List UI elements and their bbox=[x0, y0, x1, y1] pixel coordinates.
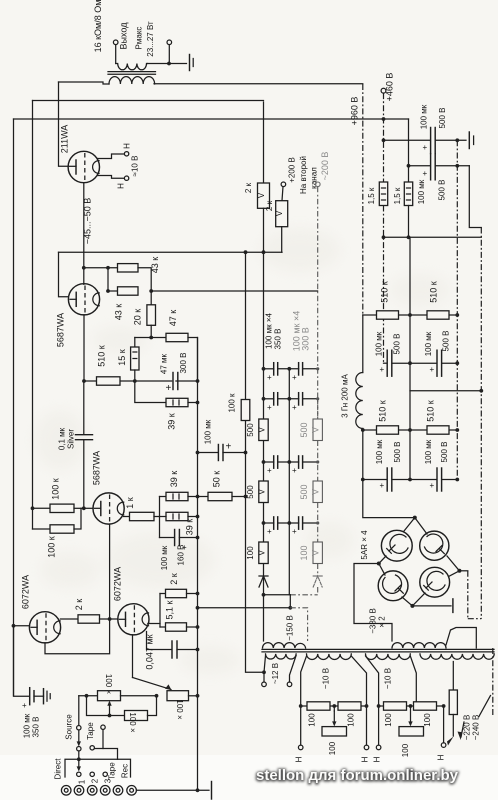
node rectifier left bbox=[377, 562, 381, 566]
svg-text:Silver: Silver bbox=[67, 429, 76, 449]
tube V4 cathode dashed bbox=[45, 613, 47, 641]
wire 39k no1 bracket bbox=[135, 381, 166, 403]
wire +460 drop dashdot bbox=[383, 93, 385, 182]
svg-text:100 мк: 100 мк bbox=[375, 331, 384, 356]
svg-text:100 к: 100 к bbox=[228, 393, 237, 413]
svg-text:V: V bbox=[311, 550, 321, 556]
bar cathode bbox=[452, 599, 454, 613]
capacitor 100mk 500V row2 right bbox=[430, 468, 442, 491]
svg-text:+: + bbox=[430, 481, 435, 490]
tube V1 grid arc bbox=[93, 161, 99, 174]
capacitor 100mk 160V bbox=[160, 530, 198, 553]
svg-text:39 к: 39 к bbox=[185, 519, 195, 536]
svg-text:+460 В: +460 В bbox=[385, 73, 395, 102]
tube V2 plate bar bbox=[70, 292, 76, 306]
terminal H top bbox=[124, 152, 128, 156]
wire 5687 no1 grid bbox=[59, 252, 69, 297]
node A-mid bbox=[332, 704, 336, 708]
wire y165 row bbox=[409, 165, 470, 167]
transformer T1 primary coil bbox=[109, 77, 155, 84]
svg-text:Source: Source bbox=[65, 714, 74, 740]
svg-text:2 к: 2 к bbox=[74, 599, 84, 611]
wire column1 x263 bbox=[263, 252, 265, 641]
node y315 x410 bbox=[408, 313, 412, 317]
terminal H A-right bbox=[364, 745, 369, 750]
node bus y537 bbox=[196, 536, 200, 540]
arrow selector in box bbox=[77, 759, 81, 771]
rectifier tube TR bbox=[420, 531, 449, 560]
wire y607 to bus bbox=[198, 607, 291, 609]
terminal H A-left bbox=[298, 745, 303, 750]
resistor 500 no2 col1 bbox=[257, 481, 268, 503]
svg-text:100: 100 bbox=[246, 546, 255, 560]
resistor 1,5k no2 bbox=[404, 182, 412, 206]
fuse mains bbox=[449, 690, 457, 736]
resistor 100k column bbox=[241, 400, 250, 421]
svg-text:15 к: 15 к bbox=[117, 349, 127, 366]
wire bracket x160 bbox=[159, 594, 161, 628]
svg-text:100 к: 100 к bbox=[47, 536, 57, 558]
svg-text:Н: Н bbox=[117, 183, 126, 189]
node 15k bottom y381 bbox=[133, 379, 137, 383]
label -380 В x2 bbox=[369, 608, 387, 634]
winding 380V secondary bbox=[392, 643, 446, 648]
wire 1,5k no2 down bbox=[408, 206, 410, 238]
jack 1 bbox=[74, 786, 84, 796]
svg-text:канал: канал bbox=[310, 167, 319, 189]
potentiometer 100 B bbox=[399, 727, 424, 736]
svg-text:V: V bbox=[311, 427, 321, 433]
wire V4 cathode loop bbox=[45, 619, 110, 654]
capacitor 100mk 500V row1 left bbox=[380, 350, 392, 376]
svg-text:100: 100 bbox=[384, 713, 393, 727]
wire cap row4 bbox=[264, 522, 318, 524]
svg-text:100 мк ×4: 100 мк ×4 bbox=[265, 312, 274, 348]
svg-text:43 к: 43 к bbox=[150, 257, 160, 274]
node row1 bbox=[262, 367, 320, 371]
wire diag bottom-BL bbox=[402, 597, 412, 606]
jack 2 bbox=[87, 786, 97, 796]
terminal 12V right bbox=[287, 656, 296, 687]
resistor 39k no3 bbox=[160, 512, 198, 520]
capacitor 100mk 500V row2 left bbox=[380, 468, 392, 491]
node bus y607 bbox=[196, 606, 200, 610]
wire primary left to rail bbox=[59, 82, 110, 84]
wire 211WA grid from rail1 bbox=[59, 82, 69, 166]
wire diag left-TL bbox=[379, 556, 386, 564]
node bus y402 bbox=[196, 401, 200, 405]
wire 2k to V5 grid bbox=[100, 618, 119, 620]
node bus y496 bbox=[196, 495, 200, 499]
svg-text:47 к: 47 к bbox=[168, 310, 178, 327]
rectifier tube BL bbox=[378, 571, 408, 601]
svg-text:20 к: 20 к bbox=[133, 309, 143, 326]
svg-text:2 к: 2 к bbox=[244, 182, 253, 193]
choke 3Gn 200mA bbox=[356, 315, 363, 430]
svg-text:V: V bbox=[257, 549, 266, 555]
node choke bottom bbox=[361, 428, 365, 432]
wire source drop bbox=[78, 696, 80, 726]
svg-text:+960 В: +960 В bbox=[350, 97, 360, 126]
svg-text:+: + bbox=[226, 442, 232, 453]
node row4 bbox=[262, 521, 320, 525]
tube V2 grid arc bbox=[93, 293, 99, 306]
cap bank row4 left bbox=[267, 517, 278, 536]
svg-text:350 В: 350 В bbox=[274, 329, 283, 350]
svg-text:100 ×: 100 × bbox=[128, 712, 137, 733]
wire x469 drop bbox=[469, 166, 481, 228]
wire volume row y696 bbox=[79, 695, 98, 697]
svg-text:100 мк: 100 мк bbox=[424, 331, 433, 356]
svg-text:100 мк: 100 мк bbox=[424, 439, 433, 464]
svg-text:43 к: 43 к bbox=[114, 304, 124, 321]
svg-text:Tape: Tape bbox=[86, 722, 95, 740]
capacitor 0,1mk Silver bbox=[76, 435, 93, 440]
wire V4 plate row 2k bbox=[60, 618, 78, 620]
node bus y696 bbox=[196, 694, 200, 698]
node x13 grid bbox=[12, 624, 16, 628]
cap bank row3 left bbox=[267, 456, 278, 475]
node rail252 x263 bbox=[262, 250, 266, 254]
resistor 43k no1 bbox=[118, 264, 139, 272]
resistor 100 col1 bbox=[257, 542, 268, 564]
wire rail2 y100 bbox=[33, 100, 264, 102]
svg-text:50 к: 50 к bbox=[212, 471, 222, 488]
wire left border v x13 bbox=[13, 119, 15, 696]
wire grid to tube bbox=[84, 507, 93, 509]
cap bank row1 left bbox=[267, 363, 278, 382]
svg-text:500 В: 500 В bbox=[442, 331, 451, 352]
tube V4 plate bar bbox=[31, 620, 37, 634]
arrow 220V tap bbox=[447, 737, 454, 746]
wire ground line bottom bbox=[137, 789, 210, 791]
ground bars right top bbox=[469, 132, 473, 149]
node x245 y452 bbox=[244, 451, 248, 455]
svg-text:Rec: Rec bbox=[121, 764, 130, 778]
wire 10V2 left flare bbox=[366, 656, 379, 745]
capacitor 100mk 500V top bbox=[423, 128, 436, 154]
wire col bottom bar bbox=[264, 587, 318, 595]
svg-text:+: + bbox=[22, 701, 27, 710]
resistor 100 B-left bbox=[384, 702, 407, 710]
label Pмакс 23...27 Вт bbox=[135, 21, 156, 57]
wire heater top bbox=[98, 154, 125, 159]
node grid V5 bbox=[108, 617, 112, 621]
svg-text:V: V bbox=[257, 192, 266, 198]
svg-text:6072WA: 6072WA bbox=[21, 575, 31, 609]
diode col1 bbox=[259, 576, 268, 587]
wire mains switch dash bbox=[492, 648, 494, 717]
svg-text:+: + bbox=[166, 383, 172, 394]
wire right node path bbox=[459, 571, 481, 619]
wire cap row3 bbox=[264, 461, 318, 463]
wire y381 row bbox=[84, 380, 198, 382]
svg-text:47 мк: 47 мк bbox=[160, 353, 169, 374]
svg-text:Pмакс: Pмакс bbox=[135, 27, 144, 50]
winding mains bbox=[420, 654, 494, 659]
jack 3 bbox=[100, 786, 110, 796]
jack Tape bbox=[113, 786, 123, 796]
arrow V5 cathode to pot bbox=[133, 678, 172, 691]
wire mains drop bbox=[452, 662, 454, 691]
svg-text:5687WA: 5687WA bbox=[92, 451, 102, 485]
wire cap row y479 bbox=[363, 479, 458, 481]
node bus y452 bbox=[196, 451, 200, 455]
wire 10V1 right flare bbox=[351, 656, 366, 745]
wire pot2 right to bus bbox=[189, 695, 198, 697]
node bus y593 bbox=[196, 592, 200, 596]
wire rail3 y119 bbox=[14, 118, 409, 120]
transformer T1 secondary coil bbox=[116, 64, 148, 70]
svg-text:500 В: 500 В bbox=[440, 442, 449, 463]
node x408 y165 bbox=[407, 164, 411, 168]
svg-text:100 мк: 100 мк bbox=[375, 439, 384, 464]
resistor 100 A-right bbox=[338, 702, 361, 710]
svg-text:~240 В: ~240 В bbox=[472, 715, 481, 741]
svg-text:500 В: 500 В bbox=[438, 108, 447, 129]
svg-text:500 В: 500 В bbox=[393, 334, 402, 355]
node plate row bbox=[106, 266, 110, 270]
wire to rectifier top bbox=[363, 430, 415, 518]
wire diag top-TR bbox=[415, 518, 427, 534]
wire V3 bottom down bbox=[109, 524, 111, 619]
svg-text:16 кОм/8 Ом: 16 кОм/8 Ом bbox=[93, 0, 103, 52]
svg-text:100 ×: 100 × bbox=[175, 699, 184, 720]
svg-text:100 ×: 100 × bbox=[104, 674, 113, 695]
resistor 100 A-left bbox=[307, 702, 330, 710]
svg-text:+: + bbox=[292, 466, 297, 475]
node x383 y237 bbox=[382, 235, 386, 239]
svg-text:+: + bbox=[380, 481, 385, 490]
svg-text:V: V bbox=[275, 210, 284, 216]
wire main bus x197 bbox=[197, 338, 199, 791]
tube V3 grid arc bbox=[117, 502, 123, 515]
potentiometer 100k no2 bbox=[167, 691, 189, 701]
wire B-right drop bbox=[443, 706, 445, 743]
svg-text:+: + bbox=[292, 373, 297, 382]
wire y140 row bbox=[384, 139, 467, 141]
svg-text:~10 В: ~10 В bbox=[384, 668, 393, 689]
tube V4 grid arc bbox=[54, 621, 60, 634]
capacitor 0,047mk bbox=[147, 632, 198, 659]
node y479 x410 bbox=[408, 478, 412, 482]
tube V3 cathode dashed bbox=[109, 495, 111, 523]
svg-text:100 к: 100 к bbox=[51, 478, 61, 500]
resistor 2k interstage bbox=[78, 615, 100, 623]
svg-text:~200 В: ~200 В bbox=[320, 152, 330, 181]
tube V2 5687WA no1 envelope bbox=[68, 284, 99, 315]
node bus bottom bbox=[196, 788, 200, 792]
resistor 510k bbox=[97, 377, 121, 385]
node x290 y607 bbox=[288, 606, 292, 610]
resistor 100 B-right bbox=[414, 702, 437, 710]
tube V1 plate bar bbox=[70, 160, 77, 174]
wire grid row y291 bbox=[108, 290, 118, 292]
svg-text:100: 100 bbox=[308, 713, 317, 727]
svg-text:510 к: 510 к bbox=[426, 400, 436, 422]
node x245 y496 bbox=[244, 495, 248, 499]
svg-text:× 2: × 2 bbox=[378, 616, 387, 628]
svg-text:+: + bbox=[292, 403, 297, 412]
node y140 x457 bbox=[455, 138, 459, 142]
resistor 510k row2 left bbox=[377, 426, 399, 434]
node box top bbox=[77, 757, 81, 761]
node 43k2 right bbox=[149, 289, 153, 293]
svg-text:500: 500 bbox=[299, 484, 309, 499]
svg-text:39 к: 39 к bbox=[167, 413, 177, 430]
svg-text:100: 100 bbox=[401, 743, 410, 757]
wire y291 long to column2 bbox=[151, 290, 317, 292]
wire bracket x159 bbox=[159, 497, 161, 538]
svg-text:100 мк: 100 мк bbox=[160, 545, 169, 570]
label 100 мк 350 В bbox=[23, 713, 41, 738]
arrow switch source bbox=[77, 731, 81, 747]
node bus y627 bbox=[196, 625, 200, 629]
svg-text:−45...−50 В: −45...−50 В bbox=[83, 198, 93, 245]
resistor 100k upper bbox=[33, 504, 84, 512]
label 100 мк x4 350 В bbox=[265, 312, 283, 349]
wire V5 anode to bracket bbox=[148, 623, 160, 625]
capacitor 100mk 500V second bbox=[423, 154, 436, 180]
svg-text:5AR × 4: 5AR × 4 bbox=[360, 530, 369, 560]
svg-text:39 к: 39 к bbox=[169, 471, 179, 488]
switch contact tape upper bbox=[101, 725, 105, 749]
tube V3 5687WA no2 envelope bbox=[93, 493, 124, 524]
svg-text:160 В: 160 В bbox=[177, 545, 186, 566]
svg-text:100 мк: 100 мк bbox=[204, 419, 213, 444]
ground bar bottom bbox=[211, 782, 213, 800]
wire heater bottom bbox=[98, 176, 125, 179]
cap bank row2 left bbox=[267, 393, 278, 412]
svg-text:Н: Н bbox=[295, 756, 304, 762]
resistor 100 col2 bbox=[311, 503, 323, 564]
node x383 y140 bbox=[382, 138, 386, 142]
wire heater row A y706 bbox=[301, 705, 367, 707]
wire 10V2 right flare bbox=[410, 656, 416, 706]
svg-text:V: V bbox=[257, 426, 266, 432]
svg-text:~220 В: ~220 В bbox=[463, 715, 472, 741]
resistor 50k bbox=[198, 492, 246, 500]
svg-text:Н: Н bbox=[361, 756, 370, 762]
wire rail y252 bbox=[59, 251, 283, 253]
switch contact tape bbox=[90, 746, 94, 750]
resistor 5,1k bbox=[160, 623, 198, 631]
arrow wiper B bbox=[408, 706, 412, 726]
node rectifier bottom bbox=[410, 604, 414, 608]
labels 100mk 500V row1 bbox=[375, 331, 451, 357]
node y237 x408 bbox=[407, 235, 411, 239]
diode col2 bbox=[313, 564, 322, 588]
wire column2 dashed top bbox=[317, 187, 319, 419]
svg-text:5,1 к: 5,1 к bbox=[165, 600, 175, 619]
switch contact source top bbox=[77, 726, 81, 730]
terminal Выход output jack bbox=[113, 40, 118, 64]
svg-text:1 к: 1 к bbox=[125, 497, 135, 509]
resistor 43k no2 bbox=[118, 287, 139, 295]
winding 10V no1 bbox=[307, 654, 352, 660]
resistor 510k row2 right bbox=[427, 426, 449, 434]
svg-text:+: + bbox=[267, 466, 272, 475]
tube V2 cathode dashed bbox=[84, 286, 86, 314]
wire to box bbox=[78, 751, 80, 759]
node col1 bottom bbox=[262, 593, 266, 597]
wire V5 cathode down bbox=[132, 635, 134, 678]
svg-text:+: + bbox=[423, 169, 428, 178]
wire x290 drop bbox=[289, 595, 291, 608]
svg-text:V: V bbox=[257, 488, 266, 494]
wire corner x408 bbox=[408, 119, 410, 182]
svg-text:1: 1 bbox=[78, 779, 87, 784]
svg-text:+: + bbox=[267, 403, 272, 412]
svg-text:0,1 мк: 0,1 мк bbox=[58, 427, 67, 450]
wire filter row1 y315 bbox=[363, 314, 458, 316]
svg-text:100: 100 bbox=[299, 545, 309, 560]
svg-text:500 В: 500 В bbox=[393, 442, 402, 463]
wire diag bottom-BR bbox=[412, 593, 425, 606]
node pot2 feed bbox=[155, 694, 159, 698]
resistor 39k no1 bbox=[166, 398, 188, 406]
wire grid feed down x83 bbox=[83, 381, 85, 508]
node 12V left bbox=[262, 670, 266, 674]
svg-text:23...27 Вт: 23...27 Вт bbox=[146, 21, 155, 57]
resistor 500 no2 col2 bbox=[311, 441, 323, 503]
capacitor 100mk 350V to ground bbox=[14, 626, 44, 710]
resistor 39k no2 bbox=[160, 492, 198, 500]
rectifier tube BR bbox=[420, 567, 450, 597]
wire y337 row bbox=[135, 337, 166, 339]
dash column x457 bbox=[456, 140, 458, 479]
wire 2k no1 to rail bbox=[263, 208, 265, 252]
node B-right bbox=[442, 704, 446, 708]
node x32 y508 bbox=[31, 506, 35, 510]
wire heater row B y706 bbox=[379, 705, 444, 707]
svg-text:~10 В: ~10 В bbox=[322, 668, 331, 689]
winding 12V bbox=[266, 654, 297, 659]
wire cap row1 bbox=[264, 368, 318, 370]
potentiometer 100k no1 bbox=[98, 691, 121, 701]
svg-text:100 мк: 100 мк bbox=[23, 713, 32, 738]
svg-text:+200 В: +200 В bbox=[288, 157, 297, 183]
resistor 20k vertical bbox=[147, 291, 156, 338]
node y363 x457 bbox=[455, 361, 459, 365]
svg-text:2: 2 bbox=[91, 778, 100, 783]
svg-text:5687WA: 5687WA bbox=[56, 313, 66, 347]
node plate line bbox=[82, 266, 86, 270]
node bus y649 bbox=[196, 648, 200, 652]
svg-text:2 к: 2 к bbox=[169, 573, 179, 585]
svg-text:510 к: 510 к bbox=[378, 400, 388, 422]
tube V5 6072WA no2 envelope bbox=[118, 604, 149, 635]
terminal H B-right bbox=[441, 743, 446, 748]
svg-text:+: + bbox=[267, 527, 272, 536]
resistor 100k lower branch bbox=[87, 696, 157, 721]
wire 12V left end bbox=[264, 656, 266, 673]
resistor 1,5k no1 bbox=[379, 182, 387, 206]
node row2 bbox=[262, 397, 320, 401]
wire left node path bbox=[354, 564, 392, 642]
jack Direct bbox=[61, 786, 71, 796]
node y391 x481 bbox=[479, 389, 483, 393]
svg-text:Tape: Tape bbox=[108, 762, 117, 780]
wire diag right-TR bbox=[447, 556, 459, 571]
cap bank row2 right bbox=[292, 393, 303, 412]
svg-text:~12 В: ~12 В bbox=[271, 663, 280, 684]
node wiper junction bbox=[108, 714, 112, 718]
terminal +200V bbox=[281, 182, 286, 201]
cap bank row1 right bbox=[292, 363, 303, 382]
node bus y381 bbox=[196, 379, 200, 383]
tube V5 cathode dashed bbox=[133, 605, 135, 633]
